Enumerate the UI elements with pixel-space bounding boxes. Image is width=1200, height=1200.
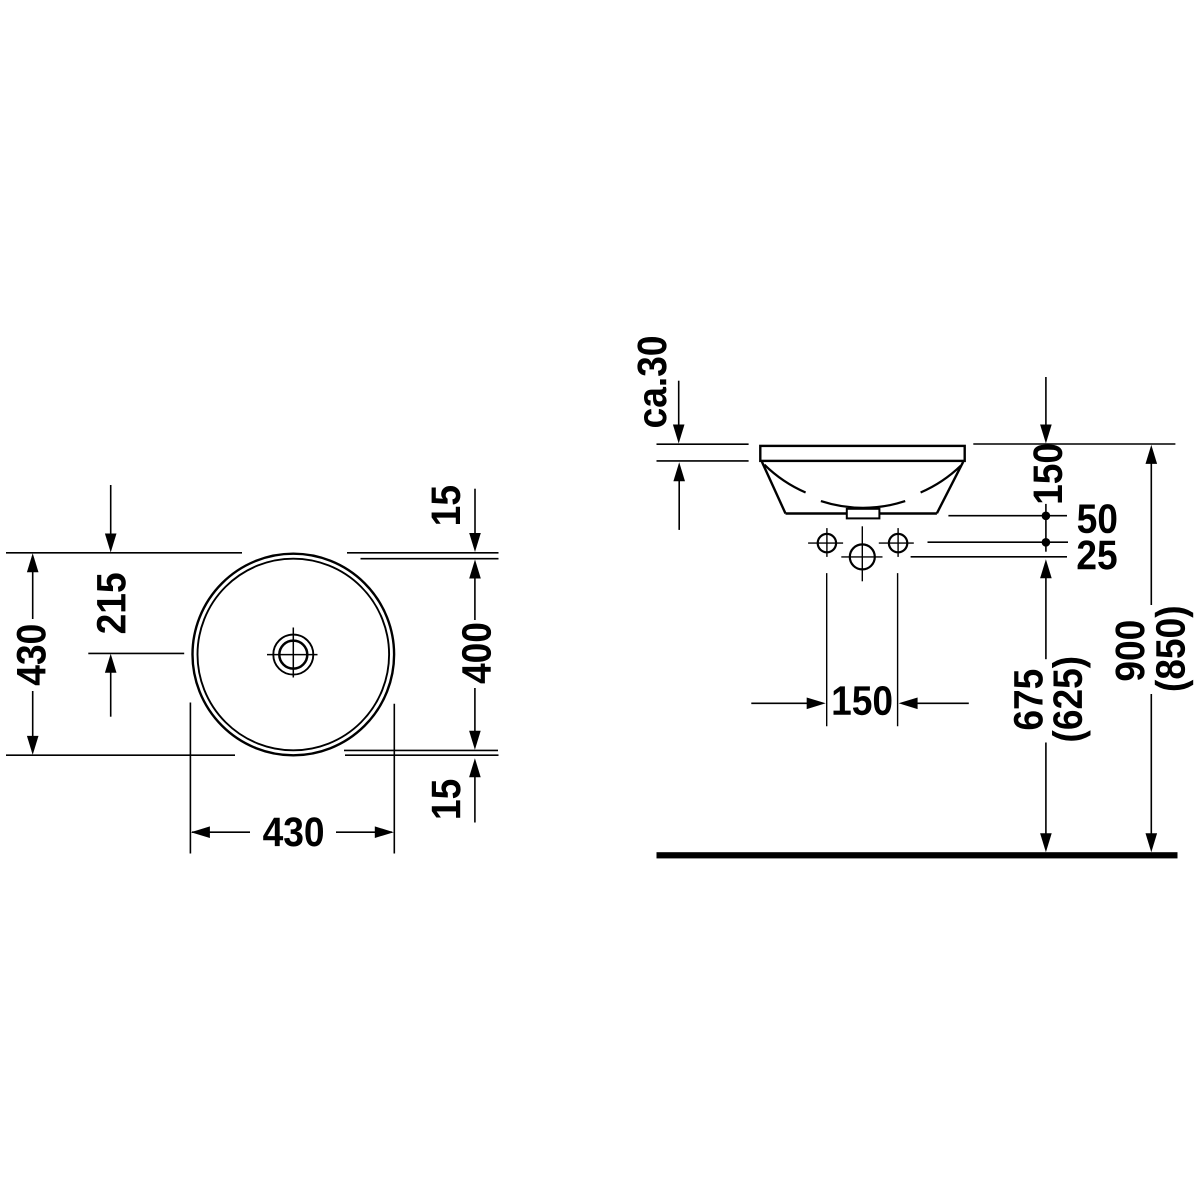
drain outer circle xyxy=(273,635,313,675)
faucet hole right xyxy=(889,534,907,552)
dimension 900 floor arrowhead xyxy=(1146,833,1158,852)
dimension ca.30 lower arrow xyxy=(673,462,685,481)
dimension 150 horizontal left arrow xyxy=(751,702,808,704)
basin inner bowl curve xyxy=(764,465,960,508)
floor line xyxy=(657,852,1178,858)
chain label 50 xyxy=(1078,504,1117,533)
dimension 15 top-right arrows xyxy=(474,489,476,535)
wall line lower left xyxy=(657,460,749,462)
dimension 215 terminus line xyxy=(88,652,184,654)
inner top tangent extension line xyxy=(361,558,499,560)
drain outlet rectangle xyxy=(847,509,880,519)
dimension 675 line upper part xyxy=(1045,577,1047,659)
wall line upper left xyxy=(657,443,749,445)
dimension 675 label line 2 xyxy=(1014,670,1043,730)
dimension 150 horizontal label xyxy=(1155,607,1193,690)
extension line basin bottom to chain xyxy=(948,515,1067,517)
dimension 430 left arrowheads xyxy=(27,553,39,755)
chain dot at 25 level xyxy=(1042,538,1051,547)
basin rim rectangle xyxy=(760,446,964,461)
top-right extension line xyxy=(973,443,1175,445)
dimension 675 floor arrowhead xyxy=(1040,833,1052,852)
dimension 430 bottom arrowheads xyxy=(191,826,210,838)
chain line through dots xyxy=(1045,504,1047,552)
extension line center hole to chain xyxy=(911,556,1067,558)
dimension 430 bottom extension lines xyxy=(190,703,394,854)
dimension ca.30 label xyxy=(637,337,666,427)
dimension 430 bottom label xyxy=(263,817,323,846)
chain label 150 xyxy=(1033,445,1062,503)
dimension 675 label line 1 xyxy=(834,686,892,715)
top tangent extension line xyxy=(6,552,499,554)
drain inner circle xyxy=(279,641,307,669)
basin inner rim circle xyxy=(197,559,389,751)
basin bottom line xyxy=(786,512,937,514)
chain label 25 xyxy=(1078,540,1117,569)
dimension 900 label line 1 xyxy=(1052,658,1091,741)
basin left outer wall xyxy=(762,462,786,514)
extension line right hole to chain xyxy=(928,541,1069,543)
dimension 215 lower arrow xyxy=(110,672,112,717)
dimension 400 bottom arrowhead xyxy=(469,731,481,750)
drain crosshair xyxy=(267,628,318,678)
chain dot at 50 level xyxy=(1042,512,1051,521)
dimension 400 line xyxy=(474,578,476,733)
dimension 15 bottom-right arrow xyxy=(469,758,481,777)
bottom outer tangent extension line xyxy=(6,754,499,756)
dimension 675 upper arrow (points up to 25 line) xyxy=(1040,559,1052,578)
dimension 900 line upper part xyxy=(1150,463,1152,605)
faucet hole center xyxy=(850,544,875,569)
faucet hole left xyxy=(818,534,836,552)
dimension 430 left label xyxy=(17,625,46,685)
dimension 215 label xyxy=(97,573,126,633)
dimension 430 left vertical xyxy=(32,556,34,752)
dimension 150 horizontal extension lines xyxy=(827,573,898,726)
dimension 900 label line 2 xyxy=(1115,621,1144,680)
dimension 215 upper arrow xyxy=(110,485,112,536)
dimension 400 label xyxy=(462,624,491,684)
dimension ca.30 upper arrow xyxy=(678,381,680,427)
faucet hole center crosshair xyxy=(841,526,882,581)
chain dimension vertical: 150 arrow from above xyxy=(1045,377,1047,426)
dimension 900 line lower part xyxy=(1150,694,1152,835)
faucet hole left crosshair xyxy=(808,528,843,557)
faucet hole right crosshair xyxy=(879,528,914,557)
dimension 15 top-right label xyxy=(432,486,461,524)
dimension 15 bottom-right label xyxy=(432,780,461,818)
dimension 430 bottom line xyxy=(192,831,392,833)
dimension 675 line lower part xyxy=(1045,743,1047,836)
basin outer rim circle xyxy=(192,554,394,756)
basin right outer wall xyxy=(937,462,963,514)
dimension 150 horizontal right arrow xyxy=(899,698,918,710)
bottom inner tangent extension line xyxy=(344,749,498,751)
dimension 900 upper arrow (points up to top line) xyxy=(1146,445,1158,464)
